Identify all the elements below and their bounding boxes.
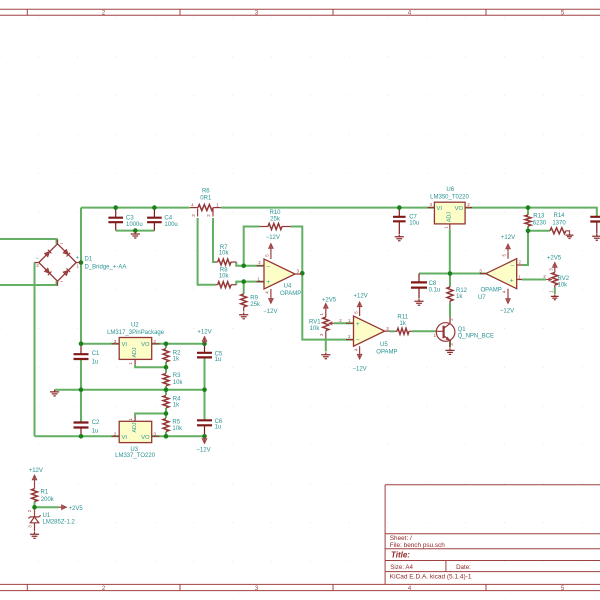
svg-text:25k: 25k xyxy=(270,217,281,223)
svg-text:−: − xyxy=(266,263,270,270)
svg-text:VO: VO xyxy=(141,342,150,348)
svg-text:+12V: +12V xyxy=(197,330,211,336)
capacitor C1 xyxy=(74,351,101,366)
wire right cap top lead xyxy=(596,216,598,219)
svg-text:VO: VO xyxy=(455,206,464,212)
svg-text:R1: R1 xyxy=(41,490,49,496)
wire U4 output down to U5 pin 2 xyxy=(302,273,353,339)
wire R3 span xyxy=(165,367,167,389)
label Q_NPN_BCE xyxy=(458,334,494,340)
svg-text:RV1: RV1 xyxy=(309,320,321,326)
svg-text:10k: 10k xyxy=(310,326,321,332)
svg-text:−12V: −12V xyxy=(196,448,210,454)
label U4 xyxy=(284,283,292,289)
svg-text:LM317_3PinPackage: LM317_3PinPackage xyxy=(107,330,165,336)
svg-text:U2: U2 xyxy=(131,323,139,329)
wire R6 left sense drop to R8 xyxy=(198,218,216,285)
capacitor C3 xyxy=(108,216,142,228)
svg-text:10u: 10u xyxy=(409,220,419,226)
junction J6 xyxy=(133,228,138,233)
svg-text:−: − xyxy=(356,337,360,344)
label U3 xyxy=(130,447,138,453)
junction J8 xyxy=(241,279,246,284)
wire R6 right sense drop to R7 xyxy=(213,218,216,262)
svg-text:ADJ: ADJ xyxy=(132,347,138,357)
svg-text:R11: R11 xyxy=(397,315,408,321)
svg-text:R12: R12 xyxy=(456,288,468,294)
svg-text:~: ~ xyxy=(60,242,63,248)
svg-text:U4: U4 xyxy=(284,283,292,289)
junction J4 xyxy=(526,205,531,210)
svg-text:10k: 10k xyxy=(219,273,230,279)
junction J16 xyxy=(164,387,169,392)
svg-text:VI: VI xyxy=(122,342,128,348)
svg-text:U6: U6 xyxy=(446,187,454,193)
capacitor C8 xyxy=(411,281,440,293)
resistor R14 xyxy=(550,213,567,234)
svg-text:0R1: 0R1 xyxy=(200,195,212,201)
svg-text:10k: 10k xyxy=(558,282,569,288)
wire C8 top lead xyxy=(418,274,420,283)
svg-text:+2V5: +2V5 xyxy=(547,255,562,261)
resistor R8 xyxy=(216,268,237,288)
svg-text:~: ~ xyxy=(60,280,63,286)
ground below U1 xyxy=(30,532,39,538)
resistor R11 xyxy=(395,315,412,335)
svg-text:R6: R6 xyxy=(202,188,210,194)
junction J11 xyxy=(526,229,531,234)
junction J14 xyxy=(202,342,207,347)
wire R12 to Q1 collector xyxy=(449,303,451,317)
svg-text:U3: U3 xyxy=(130,447,138,453)
wire U6 ADJ down xyxy=(449,230,451,274)
junction J1 xyxy=(113,205,118,210)
label U5 xyxy=(380,342,388,348)
svg-text:VI: VI xyxy=(437,206,443,212)
svg-text:1370: 1370 xyxy=(552,221,566,227)
svg-text:1u: 1u xyxy=(92,428,99,434)
ground below R9 xyxy=(239,313,248,319)
label U5 OPAMP xyxy=(376,350,397,356)
wire R2 span xyxy=(165,344,167,368)
svg-text:1k: 1k xyxy=(173,403,180,409)
diode U1 LM285Z xyxy=(27,509,41,531)
capacitor C5 xyxy=(197,352,223,364)
junction J10 xyxy=(448,271,453,276)
power -12V above U4 xyxy=(266,235,280,252)
svg-text:1u: 1u xyxy=(92,360,99,366)
svg-text:VO: VO xyxy=(141,435,150,441)
junction J12 xyxy=(79,342,84,347)
wire U3 ADJ to divider xyxy=(135,414,166,418)
svg-text:Q_NPN_BCE: Q_NPN_BCE xyxy=(458,334,494,340)
ground at R14 right xyxy=(566,233,574,238)
wire R11 to Q1 base xyxy=(412,330,437,332)
junction J13 xyxy=(164,342,169,347)
svg-text:Date:: Date: xyxy=(456,564,471,571)
capacitor C6 xyxy=(197,419,223,431)
svg-text:10k: 10k xyxy=(173,380,184,386)
capacitor C4 xyxy=(147,216,178,228)
wire U2 VO rail xyxy=(152,343,205,345)
wire C4 top lead xyxy=(153,208,155,218)
svg-text:10k: 10k xyxy=(219,251,230,257)
title block text KiCad version xyxy=(390,574,472,581)
svg-text:1k: 1k xyxy=(173,357,180,363)
regulator U3 xyxy=(112,417,160,442)
junction J9 xyxy=(300,271,305,276)
wire C5 span xyxy=(204,344,206,390)
svg-text:−: − xyxy=(510,263,514,270)
svg-text:U1: U1 xyxy=(43,513,51,519)
junction J20 xyxy=(79,434,84,439)
svg-text:R5: R5 xyxy=(172,419,180,425)
wire R4 span xyxy=(165,390,167,414)
wire R9 top xyxy=(243,282,245,294)
capacitor C7 xyxy=(393,215,419,227)
power -12V below U5 xyxy=(353,354,367,373)
svg-text:25k: 25k xyxy=(250,302,261,308)
junction J2 xyxy=(152,205,157,210)
svg-text:RV2: RV2 xyxy=(558,276,570,282)
svg-text:R14: R14 xyxy=(553,213,565,219)
junction J18 xyxy=(164,365,169,370)
wire C3 C4 bottom to ground xyxy=(116,222,155,230)
wire U2 ADJ to divider xyxy=(135,365,166,368)
junction J17 xyxy=(202,387,207,392)
svg-text:Size: A4: Size: A4 xyxy=(390,564,413,571)
resistor R1 xyxy=(32,489,55,504)
svg-text:+: + xyxy=(76,256,80,262)
regulator U2 xyxy=(112,338,160,365)
svg-text:+2V5: +2V5 xyxy=(322,298,337,304)
svg-text:LM285Z-1.2: LM285Z-1.2 xyxy=(43,520,76,526)
svg-text:+12V: +12V xyxy=(501,235,515,241)
svg-text:10k: 10k xyxy=(172,426,183,432)
svg-text:−12V: −12V xyxy=(266,235,280,241)
resistor R4 xyxy=(163,396,181,409)
power +12V above U5 xyxy=(354,294,368,309)
svg-text:R3: R3 xyxy=(173,373,181,379)
label U6 xyxy=(446,187,454,193)
wire U7 pin 1 to RV2 wiper xyxy=(522,279,546,281)
title block text Date xyxy=(456,564,471,571)
svg-text:+12V: +12V xyxy=(354,294,368,300)
junction J21 xyxy=(164,434,169,439)
resistor R12 xyxy=(447,286,468,303)
junction J5 xyxy=(79,260,84,265)
resistor R5 xyxy=(163,419,183,432)
wire C6 span xyxy=(204,390,206,437)
wire AC1 from left edge to bridge top xyxy=(0,239,57,244)
svg-text:1k: 1k xyxy=(456,294,463,300)
svg-text:1000u: 1000u xyxy=(126,222,143,228)
wire R1 to node xyxy=(34,502,36,508)
svg-text:OPAMP: OPAMP xyxy=(481,287,502,293)
svg-text:0.1u: 0.1u xyxy=(429,288,441,294)
ground below RV2 xyxy=(551,295,559,300)
wire R10 feedback left xyxy=(244,227,260,266)
svg-text:LM337_TO220: LM337_TO220 xyxy=(115,453,156,459)
label U2 xyxy=(131,323,139,329)
capacitor C9 right edge xyxy=(590,217,600,222)
label D_Bridge_+-AA xyxy=(85,264,127,270)
junction J22 xyxy=(202,434,207,439)
power +12V above R1 xyxy=(29,468,43,488)
svg-text:+: + xyxy=(510,277,514,284)
wire R7 to U4 pin 2 xyxy=(236,262,264,266)
resistor R9 xyxy=(241,294,261,312)
wire RV2 bottom to ground xyxy=(554,288,556,295)
wire R13 bottom to node xyxy=(527,226,529,231)
svg-text:1u: 1u xyxy=(215,425,222,431)
wire U1 to node xyxy=(34,507,36,517)
junction J15 xyxy=(79,387,84,392)
label Q1 xyxy=(458,327,467,333)
wire node to +2V5 arrow xyxy=(35,506,59,508)
wire C7 top lead xyxy=(398,208,400,217)
svg-text:ADJ: ADJ xyxy=(447,212,453,222)
junction J23 xyxy=(32,505,37,510)
label LM337_TO220 xyxy=(115,453,156,459)
resistor R6 xyxy=(190,188,221,216)
regulator U6 xyxy=(428,202,473,229)
wire R10 feedback right xyxy=(291,227,303,274)
title block frame xyxy=(385,485,600,585)
svg-text:−12V: −12V xyxy=(500,309,514,315)
power +2V5 above RV1 xyxy=(322,298,337,311)
svg-text:1k: 1k xyxy=(400,321,407,327)
power +2V5 arrow right xyxy=(59,505,84,512)
resistor R13 xyxy=(525,214,547,227)
power -12V below U4 xyxy=(263,297,277,316)
ground below C3 C4 xyxy=(131,232,140,238)
label D1 xyxy=(85,256,93,262)
wire ground rail mid xyxy=(55,389,205,391)
svg-text:Q1: Q1 xyxy=(458,327,467,333)
svg-text:R13: R13 xyxy=(533,214,545,220)
label U4 OPAMP xyxy=(280,291,301,297)
power +2V5 above RV2 xyxy=(547,255,562,270)
svg-text:R2: R2 xyxy=(173,351,181,357)
power +12V at C5 xyxy=(197,330,211,344)
label LM350_TO220 xyxy=(430,195,469,201)
wire C1 chain xyxy=(80,344,82,390)
wire node to R14 xyxy=(528,230,550,232)
wire negative raw rail to U3 VI xyxy=(35,435,120,437)
label U7 OPAMP xyxy=(481,287,502,293)
wire R14 right to ground xyxy=(566,231,570,233)
sheet border frame bottom xyxy=(0,584,600,591)
resistor R2 xyxy=(163,349,181,363)
op-amp U5 xyxy=(346,309,390,354)
svg-text:C1: C1 xyxy=(92,351,100,357)
wire C3 top lead xyxy=(115,208,117,218)
capacitor C2 xyxy=(74,420,101,435)
wire bridge minus down to negative rail xyxy=(34,263,36,437)
label U1 xyxy=(43,513,51,519)
wire U7 pin 2 up to R13 node xyxy=(522,231,528,265)
power -12V below U7 xyxy=(500,296,514,315)
svg-text:KiCad E.D.A. kicad (5.1.4)-1: KiCad E.D.A. kicad (5.1.4)-1 xyxy=(390,574,472,581)
junction J7 xyxy=(241,264,246,269)
junction J19 xyxy=(164,411,169,416)
wire C8 bottom to ground xyxy=(418,288,420,299)
svg-text:−12V: −12V xyxy=(353,366,367,372)
svg-text:C2: C2 xyxy=(92,420,100,426)
wire AC2 from left edge to bridge bottom xyxy=(0,281,57,285)
title block text Sheet xyxy=(390,535,412,542)
wire ADJ node horizontal xyxy=(419,273,486,275)
ground on mid rail xyxy=(50,390,59,396)
diode bridge D1 xyxy=(35,239,82,285)
transistor Q1 xyxy=(434,317,455,348)
svg-text:C3: C3 xyxy=(126,216,134,222)
svg-text:C8: C8 xyxy=(429,281,437,287)
ground below C7 xyxy=(395,235,404,241)
svg-text:OPAMP: OPAMP xyxy=(376,350,397,356)
svg-text:200k: 200k xyxy=(41,497,55,503)
svg-text:LM350_T0220: LM350_T0220 xyxy=(430,195,469,201)
resistor R10 xyxy=(260,210,291,229)
svg-text:ADJ: ADJ xyxy=(132,422,138,432)
title block text File xyxy=(390,542,446,549)
title block text Title xyxy=(391,551,410,560)
svg-text:−12V: −12V xyxy=(263,309,277,315)
svg-text:File: bench psu.sch: File: bench psu.sch xyxy=(390,542,446,549)
potentiometer RV2 xyxy=(543,268,569,293)
resistor R7 xyxy=(216,245,237,265)
label LM285Z-1.2 xyxy=(43,520,76,526)
svg-text:+: + xyxy=(356,321,360,328)
ground below Q1 emitter xyxy=(445,348,454,354)
sheet border frame top xyxy=(0,9,600,16)
svg-text:R9: R9 xyxy=(250,296,258,302)
wire R5 span xyxy=(165,414,167,437)
svg-text:U5: U5 xyxy=(380,342,388,348)
svg-text:6230: 6230 xyxy=(533,221,547,227)
label U7 xyxy=(478,295,486,301)
svg-text:D_Bridge_+-AA: D_Bridge_+-AA xyxy=(85,264,127,270)
svg-text:C4: C4 xyxy=(164,216,172,222)
wire C2 chain xyxy=(80,390,82,437)
svg-text:U7: U7 xyxy=(478,295,486,301)
wire RV1 wiper to U5 pin 1 xyxy=(334,322,354,324)
svg-text:+: + xyxy=(266,279,270,286)
wire C7 bottom to ground xyxy=(398,221,400,234)
wire U5 output to R11 xyxy=(390,330,395,332)
ground below right cap xyxy=(592,234,600,240)
ground below C8 xyxy=(414,299,423,305)
wire U2 VI rail xyxy=(81,343,120,345)
label LM317_3PinPackage xyxy=(107,330,165,336)
svg-text:−: − xyxy=(35,256,39,262)
op-amp U4 xyxy=(257,252,303,297)
title block text Size xyxy=(390,564,413,571)
svg-text:OPAMP: OPAMP xyxy=(280,291,301,297)
power -12V at C6 xyxy=(196,436,210,453)
svg-text:D1: D1 xyxy=(85,256,93,262)
wire bridge plus vertical xyxy=(80,208,82,344)
op-amp U7 xyxy=(479,251,522,296)
wire R13 top xyxy=(527,208,529,215)
wire right cap bottom to ground xyxy=(596,222,598,234)
wire RV1 bottom to ground xyxy=(325,338,327,352)
potentiometer RV1 xyxy=(309,310,342,338)
svg-text:Title:: Title: xyxy=(391,551,410,560)
junction J3 xyxy=(397,205,402,210)
svg-text:100u: 100u xyxy=(164,222,177,228)
wire main positive rail xyxy=(81,208,597,217)
power +12V above U7 xyxy=(501,235,515,251)
svg-text:+12V: +12V xyxy=(29,468,43,474)
resistor R3 xyxy=(163,373,183,386)
svg-text:+2V5: +2V5 xyxy=(69,506,84,512)
wire U3 VO rail to C6 xyxy=(152,435,205,437)
wire R12 top lead xyxy=(449,274,451,287)
svg-text:1u: 1u xyxy=(215,357,222,363)
wire Q1 emitter to ground xyxy=(449,341,451,348)
svg-text:VI: VI xyxy=(122,435,128,441)
ground below RV1 xyxy=(321,353,330,359)
wire R8 to U4 pin 1 xyxy=(236,282,264,285)
svg-text:R10: R10 xyxy=(269,210,281,216)
